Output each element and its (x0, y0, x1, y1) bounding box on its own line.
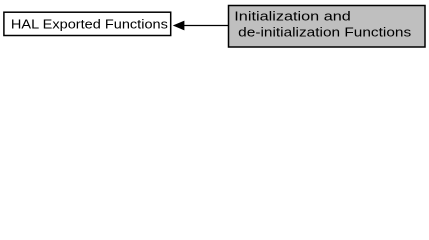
node box: Initialization and de-initialization Functions (229, 6, 426, 48)
svg-text:Initialization and: Initialization and (234, 9, 350, 24)
svg-text:de-initialization Functions: de-initialization Functions (238, 25, 411, 40)
arrowhead (174, 21, 184, 30)
node box: HAL Exported Functions (4, 12, 171, 35)
edge wire (184, 25, 229, 27)
svg-text:HAL Exported Functions: HAL Exported Functions (11, 17, 168, 32)
